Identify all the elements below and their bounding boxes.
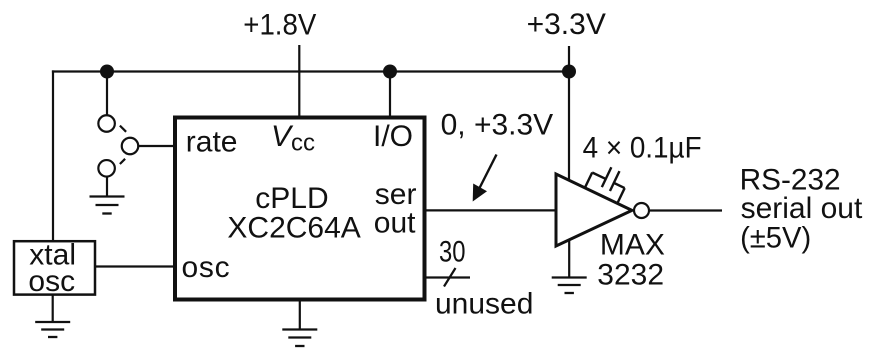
ground under cPLD [282, 330, 317, 347]
wire unused stub [425, 276, 470, 278]
wire MAX3232 ground stem [568, 240, 570, 277]
svg-text:I/O: I/O [373, 120, 413, 153]
switch SW1 common contact [122, 138, 139, 155]
wire +3.3V stem down to MAX3232 [568, 46, 570, 181]
wire xtal osc ground stem [52, 296, 54, 322]
wire ser out to MAX3232 [425, 209, 557, 211]
svg-text:out: out [374, 207, 416, 240]
xtal osc box [14, 241, 95, 294]
svg-text:serial out: serial out [741, 192, 863, 225]
svg-text:osc: osc [182, 251, 231, 284]
ground under xtal osc [35, 322, 70, 337]
ground under switch [90, 197, 125, 214]
bus slash on unused stub [444, 268, 456, 287]
wire switch top throw stem [106, 72, 108, 116]
svg-text:4 × 0.1µF: 4 × 0.1µF [583, 131, 702, 164]
svg-text:30: 30 [439, 236, 466, 269]
svg-text:3232: 3232 [597, 259, 664, 292]
svg-text:Vcc: Vcc [271, 120, 315, 157]
wire +3.3V top bus [52, 70, 569, 72]
svg-text:(±5V): (±5V) [740, 221, 811, 254]
node junction dot at I/O [383, 65, 397, 79]
wire left drop to xtal osc [52, 70, 54, 240]
wire xtal osc to osc pin [96, 265, 175, 267]
arrow pointing to ser out wire [473, 155, 497, 202]
node junction dot at switch [100, 65, 114, 79]
wire RS-232 output [649, 209, 722, 211]
wire I/O stem [389, 72, 391, 118]
op-amp U2 MAX3232 driver triangle [556, 174, 632, 246]
svg-text:0, +3.3V: 0, +3.3V [441, 108, 554, 141]
capacitor symbol on MAX3232 [585, 161, 630, 204]
inverter bubble on MAX3232 output [634, 203, 649, 218]
cPLD U1 box [175, 118, 425, 300]
wire cPLD ground stem [299, 301, 301, 329]
wire switch bottom throw to ground [106, 177, 108, 196]
node junction dot at +3.3V [562, 65, 576, 79]
svg-text:XC2C64A: XC2C64A [227, 211, 360, 244]
switch SW1 top throw contact [98, 115, 115, 132]
switch SW1 dashed wiper [120, 126, 126, 164]
ground under MAX3232 [552, 278, 587, 294]
wire +1.8V stem to Vcc pin [298, 45, 300, 117]
svg-text:+3.3V: +3.3V [527, 8, 606, 41]
svg-text:+1.8V: +1.8V [243, 8, 316, 41]
switch SW1 bottom throw contact [98, 160, 115, 177]
svg-text:rate: rate [186, 126, 238, 159]
svg-text:osc: osc [28, 265, 75, 298]
svg-text:cPLD: cPLD [255, 182, 328, 215]
svg-text:unused: unused [435, 288, 533, 321]
wire switch common to rate pin [139, 145, 176, 147]
svg-text:MAX: MAX [600, 229, 665, 262]
